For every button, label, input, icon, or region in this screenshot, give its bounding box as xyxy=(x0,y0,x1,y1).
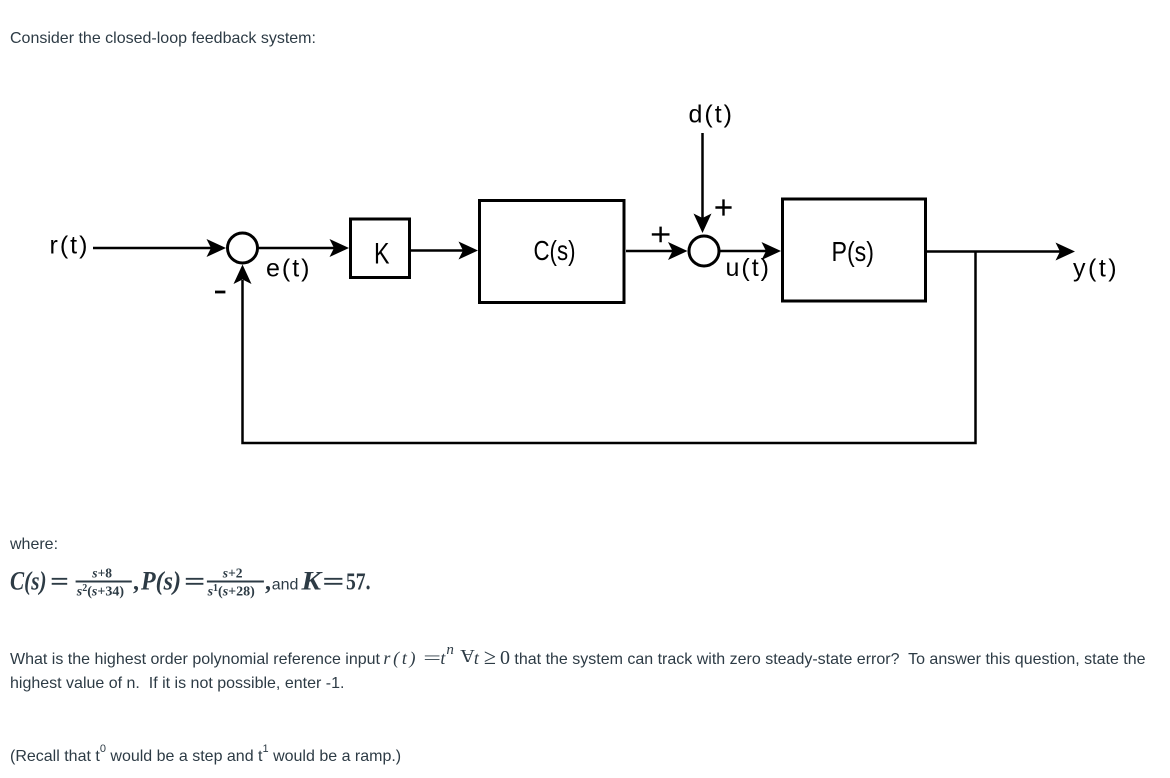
wire P(s) to y(t) output xyxy=(927,250,1061,253)
wire S1 to K xyxy=(258,247,335,250)
block C(s) xyxy=(480,201,625,303)
intro text xyxy=(10,27,316,51)
arrowhead into S1 xyxy=(207,239,227,257)
arrowhead at y(t) xyxy=(1056,243,1076,261)
recall note xyxy=(10,745,401,769)
minus sign at S1 xyxy=(215,291,225,294)
arrowhead into P(s) xyxy=(762,242,782,260)
svg-text:57.: 57. xyxy=(346,570,371,596)
svg-text:s+8: s+8 xyxy=(91,566,112,581)
svg-text:K: K xyxy=(300,567,322,596)
arrowhead into K xyxy=(330,239,350,257)
svg-text:s+2: s+2 xyxy=(222,566,243,581)
wire C(s) to summing junction S2 xyxy=(626,250,674,253)
fraction (s+2)/(s^1(s+28)) xyxy=(207,581,264,583)
wire S2 to P(s) xyxy=(720,250,769,253)
wire K to C(s) xyxy=(411,249,464,252)
arrowhead of feedback into S1 bottom xyxy=(234,265,252,285)
summing junction S1 xyxy=(228,233,258,263)
plus sign above S2 xyxy=(715,199,731,215)
wire d(t) down into S2 xyxy=(701,133,704,219)
svg-text:s1(s+28): s1(s+28) xyxy=(207,583,256,600)
plus sign left of S2 xyxy=(652,227,670,243)
svg-text:and: and xyxy=(272,577,299,594)
arrowhead into S2 from C(s) xyxy=(668,242,688,260)
block K xyxy=(351,219,410,278)
svg-text:s2(s+34): s2(s+34) xyxy=(76,583,125,600)
block P(s) xyxy=(783,199,926,301)
fraction (s+8)/(s^2(s+34)) xyxy=(76,581,132,583)
wire r(t) to summing junction S1 xyxy=(93,247,212,250)
arrowhead into C(s) xyxy=(459,242,479,260)
summing junction S2 xyxy=(689,236,719,266)
svg-text:P(s): P(s) xyxy=(140,567,181,596)
where: xyxy=(10,533,58,557)
arrowhead of d(t) into S2 top xyxy=(694,214,712,234)
svg-text:,: , xyxy=(133,570,139,596)
svg-text:C(s): C(s) xyxy=(10,567,47,596)
feedback wire: branch down, across bottom, up to S1 xyxy=(243,252,976,444)
svg-text:,: , xyxy=(265,570,271,596)
question text xyxy=(10,648,1166,696)
